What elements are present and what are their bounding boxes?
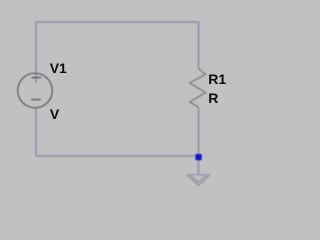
wire left vertical lower — [35, 108, 37, 156]
ground outer V — [188, 176, 210, 186]
wire left vertical upper — [35, 21, 37, 73]
label R — [208, 91, 218, 105]
wire plus-lead inside source — [35, 73, 37, 83]
plus sign crossbar — [31, 77, 41, 79]
ground inner V — [191, 176, 206, 183]
wire top horizontal — [36, 21, 199, 23]
label R1 — [208, 72, 226, 86]
ground top bar — [187, 174, 210, 176]
node junction dot — [196, 154, 202, 160]
voltage source V1 circle — [18, 73, 53, 108]
wire right vertical upper — [198, 21, 200, 68]
wire bottom horizontal — [36, 155, 199, 157]
resistor R1 zigzag — [190, 69, 206, 108]
minus sign bar — [31, 99, 41, 101]
wire right vertical lower — [198, 107, 200, 174]
label V1 — [50, 61, 67, 75]
label V — [50, 107, 59, 121]
